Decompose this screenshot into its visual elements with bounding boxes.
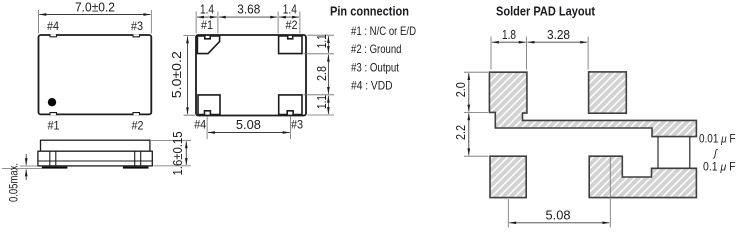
dimension 2.0 line (468, 73, 470, 111)
dimension 7.0±0.2 line (39, 14, 150, 16)
svg-text:ʃ: ʃ (712, 149, 718, 160)
dimension 0.05max lower arrow (25, 169, 27, 180)
svg-text:2.2: 2.2 (454, 125, 468, 140)
svg-text:#3 : Output: #3 : Output (351, 60, 400, 74)
dimension 5.08 solder extension lines (508, 157, 610, 228)
dimension 2.8 line (327, 55, 329, 94)
svg-text:3.68: 3.68 (237, 3, 260, 17)
svg-text:0.01 μ F: 0.01 μ F (699, 134, 736, 146)
side view bottom pad right (123, 167, 149, 169)
svg-text:1.6±0.15: 1.6±0.15 (171, 131, 185, 175)
svg-text:#1 : N/C or E/D: #1 : N/C or E/D (351, 24, 416, 38)
bottom view pad #2 (279, 36, 302, 54)
side view bottom pad left (42, 167, 68, 169)
svg-text:5.08: 5.08 (236, 117, 261, 132)
dimension 1.1 bottom line (327, 96, 329, 114)
svg-text:5.0±0.2: 5.0±0.2 (170, 51, 184, 98)
svg-text:#2 : Ground: #2 : Ground (351, 42, 402, 56)
side view seam line (38, 160, 152, 162)
solder ground trace (pad1 + strip) (489, 72, 696, 136)
svg-text:2.0: 2.0 (454, 82, 468, 97)
side view castellation lines left (50, 151, 56, 166)
dimension 3.68 line (219, 16, 277, 18)
solder left dims extension lines 2.0 / 2.2 (464, 72, 489, 156)
top view castellation notch top-left (50, 34, 57, 37)
dimension 1.1 top line (327, 36, 329, 53)
dimension 1.4 right line (279, 16, 299, 18)
svg-text:#4 : VDD: #4 : VDD (351, 79, 393, 93)
side view lid (41, 140, 150, 151)
svg-text:#1: #1 (201, 18, 213, 32)
top view castellation notch top-right (133, 34, 140, 37)
svg-text:#3: #3 (291, 117, 303, 131)
dimension 5.0±0.2 extension lines (184, 36, 196, 116)
svg-text:0.05max.: 0.05max. (7, 163, 21, 202)
top view castellation notch bottom-right (133, 113, 140, 116)
svg-text:1.8: 1.8 (502, 28, 516, 42)
side view body (38, 151, 152, 166)
svg-text:1.1: 1.1 (315, 95, 329, 109)
dimension 0.05max extension lines (2, 166, 42, 169)
dimension 2.2 line (468, 113, 470, 155)
svg-text:Pin connection: Pin connection (330, 4, 409, 19)
bottom view pad #3 (279, 95, 302, 115)
solder dims extension lines 1.8 / 3.28 (491, 37, 588, 70)
solder pad bottom-left (490, 156, 526, 197)
svg-text:#1: #1 (48, 119, 60, 133)
top view package body (39, 35, 152, 114)
svg-text:#3: #3 (131, 19, 143, 33)
svg-text:3.28: 3.28 (547, 28, 570, 42)
top dims extension lines 1.4 / 3.68 / 1.4 (196, 12, 300, 34)
bottom view package body (196, 35, 306, 116)
svg-text:#4: #4 (194, 117, 206, 131)
svg-text:1.1: 1.1 (315, 34, 329, 48)
solder pad top-right (589, 72, 627, 113)
svg-text:#4: #4 (47, 19, 59, 33)
svg-text:1.4: 1.4 (200, 3, 214, 17)
dimension 5.0±0.2 line (187, 36, 189, 114)
svg-text:#2: #2 (286, 18, 298, 32)
solder pad bottom-right (589, 156, 696, 197)
dimension 5.08 line (208, 132, 290, 134)
bottom view pad #1 (197, 36, 219, 54)
dimension 1.8 line (492, 41, 526, 43)
dimension 1.6±0.15 extension lines (151, 140, 191, 166)
dimension 5.08 extension lines (207, 117, 290, 140)
top view castellation notch bottom-left (50, 113, 57, 116)
right dims extension lines 1.1 / 2.8 / 1.1 (304, 35, 335, 115)
dimension 3.28 line (528, 41, 588, 43)
svg-text:2.8: 2.8 (315, 66, 329, 81)
svg-text:1.4: 1.4 (283, 3, 297, 17)
pin 1 index dot (48, 98, 56, 106)
svg-text:0.1 μ F: 0.1 μ F (703, 161, 736, 173)
capacitor outline right line (689, 137, 691, 169)
capacitor outline left line (657, 137, 659, 169)
svg-text:7.0±0.2: 7.0±0.2 (75, 0, 115, 14)
dimension 1.6±0.15 line (185, 141, 187, 165)
bottom view pad #4 (198, 95, 220, 115)
dimension 7.0±0.2 extension lines (39, 10, 152, 34)
dimension 1.4 left line (197, 16, 217, 18)
dimension 5.08 solder line (509, 222, 609, 224)
dimension 0.05max upper arrow (25, 154, 27, 165)
svg-text:5.08: 5.08 (546, 208, 571, 223)
svg-text:Solder PAD Layout: Solder PAD Layout (496, 3, 596, 18)
side view castellation lines right (135, 151, 141, 166)
svg-text:#2: #2 (132, 119, 144, 133)
